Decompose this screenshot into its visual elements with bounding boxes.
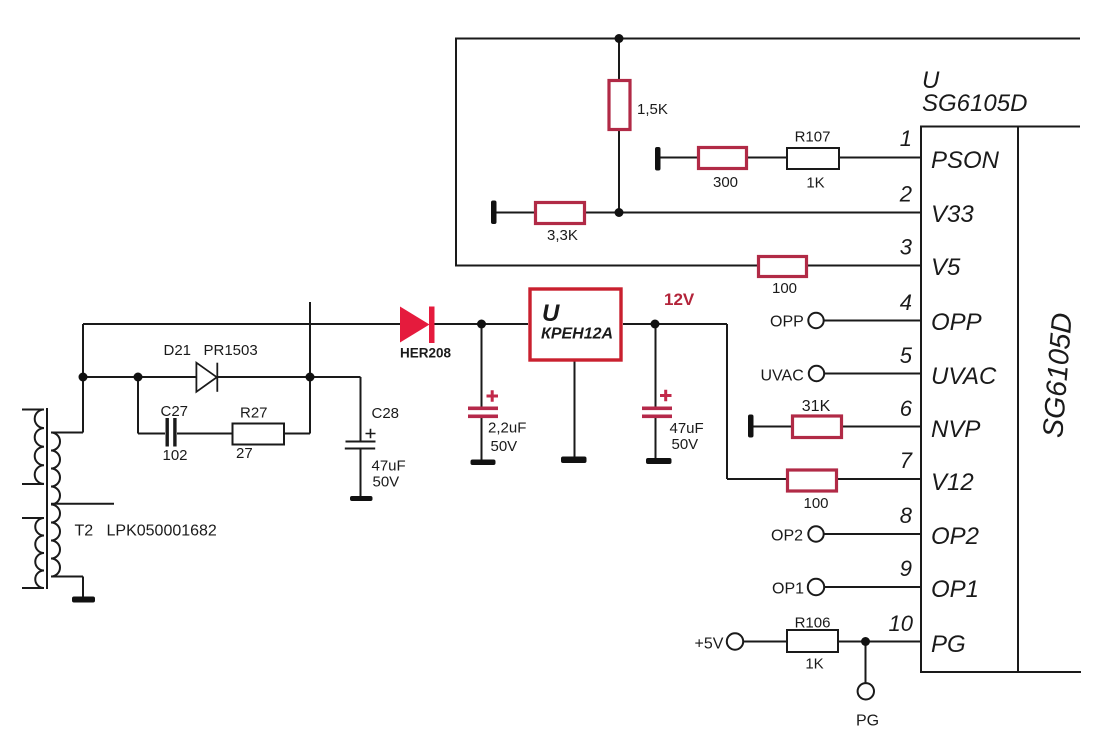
svg-text:NVP: NVP <box>931 416 980 443</box>
svg-text:50V: 50V <box>373 474 400 491</box>
svg-text:OP2: OP2 <box>771 528 803 545</box>
svg-text:2,2uF: 2,2uF <box>488 420 526 437</box>
svg-text:6: 6 <box>900 396 913 421</box>
svg-text:1,5K: 1,5K <box>637 101 668 118</box>
svg-text:OP1: OP1 <box>772 581 804 598</box>
svg-text:100: 100 <box>803 495 828 512</box>
svg-text:4: 4 <box>900 290 912 315</box>
svg-text:OP1: OP1 <box>931 576 979 603</box>
svg-text:102: 102 <box>163 447 188 464</box>
svg-text:V5: V5 <box>931 254 961 281</box>
svg-text:47uF: 47uF <box>670 420 704 437</box>
svg-text:SG6105D: SG6105D <box>922 90 1027 117</box>
svg-text:PSON: PSON <box>931 147 1000 174</box>
svg-text:47uF: 47uF <box>372 458 406 475</box>
svg-text:UVAC: UVAC <box>931 363 997 390</box>
svg-text:PG: PG <box>931 631 966 658</box>
svg-text:PG: PG <box>856 713 879 730</box>
svg-text:300: 300 <box>713 174 738 191</box>
svg-text:100: 100 <box>772 280 797 297</box>
svg-text:OP2: OP2 <box>931 523 979 550</box>
svg-text:7: 7 <box>900 448 913 473</box>
svg-text:1K: 1K <box>805 656 823 673</box>
svg-text:LPK050001682: LPK050001682 <box>107 523 217 540</box>
svg-text:9: 9 <box>900 556 912 581</box>
svg-text:R106: R106 <box>795 615 831 632</box>
svg-text:SG6105D: SG6105D <box>1037 312 1079 439</box>
svg-text:C27: C27 <box>161 403 189 420</box>
svg-text:UVAC: UVAC <box>761 368 804 385</box>
svg-text:12V: 12V <box>664 290 695 309</box>
svg-text:8: 8 <box>900 503 913 528</box>
svg-text:50V: 50V <box>491 438 518 455</box>
svg-text:T2: T2 <box>75 523 94 540</box>
svg-text:HER208: HER208 <box>400 346 452 361</box>
svg-text:+5V: +5V <box>695 636 724 653</box>
svg-text:R27: R27 <box>240 405 268 422</box>
svg-text:1K: 1K <box>806 175 824 192</box>
svg-text:OPP: OPP <box>770 314 804 331</box>
svg-text:R107: R107 <box>795 129 831 146</box>
svg-text:D21: D21 <box>164 342 192 359</box>
svg-text:1: 1 <box>900 126 912 151</box>
svg-text:3: 3 <box>900 235 913 260</box>
svg-text:2: 2 <box>899 182 912 207</box>
svg-text:PR1503: PR1503 <box>204 342 258 359</box>
svg-text:OPP: OPP <box>931 309 982 336</box>
svg-text:C28: C28 <box>372 405 400 422</box>
svg-text:10: 10 <box>889 611 914 636</box>
svg-text:U: U <box>542 300 560 327</box>
svg-text:27: 27 <box>236 445 253 462</box>
svg-text:3,3K: 3,3K <box>547 227 578 244</box>
svg-text:V33: V33 <box>931 201 974 228</box>
svg-text:31K: 31K <box>802 398 831 415</box>
svg-text:50V: 50V <box>672 436 699 453</box>
svg-text:V12: V12 <box>931 469 974 496</box>
svg-text:КРЕН12А: КРЕН12А <box>541 326 613 343</box>
svg-text:5: 5 <box>900 343 913 368</box>
